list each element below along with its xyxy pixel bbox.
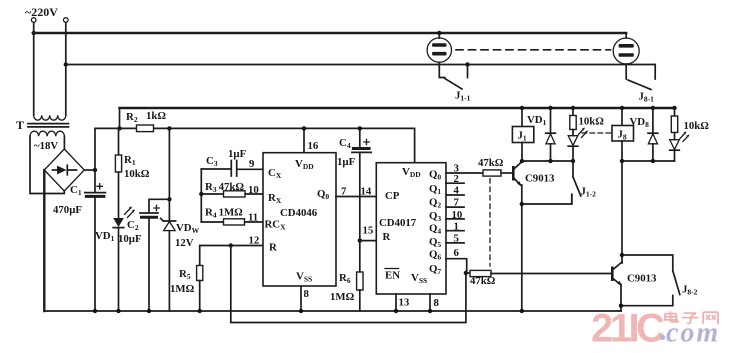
switch J8-2 lower xyxy=(621,296,673,306)
Q3 stub xyxy=(446,206,464,208)
transistor Q1 C9013 xyxy=(512,166,515,181)
svg-text:15: 15 xyxy=(363,225,374,237)
logo .com xyxy=(660,335,665,340)
collector net ch8 xyxy=(622,160,675,162)
transformer T core xyxy=(28,124,69,127)
lamp 8 xyxy=(625,33,627,38)
node switch branch ch8 xyxy=(620,253,624,257)
dashed lamps link xyxy=(456,49,611,51)
svg-text:47kΩ: 47kΩ xyxy=(470,275,496,287)
wire L terminal down xyxy=(33,23,35,116)
node R3 left xyxy=(199,192,203,196)
svg-text:10kΩ: 10kΩ xyxy=(579,116,605,128)
node C2 tap xyxy=(167,197,171,201)
node emitter tap xyxy=(520,202,524,206)
LED ch1 xyxy=(568,136,578,146)
wire pin15 xyxy=(360,240,377,242)
wire VDW branch xyxy=(168,128,170,221)
relay J1 coil xyxy=(520,106,524,110)
resistor R3 xyxy=(201,193,263,195)
svg-text:5: 5 xyxy=(454,233,459,245)
resistor R5 xyxy=(200,246,263,266)
LED VD1 light arrows xyxy=(125,208,135,218)
svg-text:2: 2 xyxy=(454,173,459,185)
wire secondary left to bridge bottom xyxy=(30,136,64,193)
ground rail dots xyxy=(93,309,97,313)
Q1 stub xyxy=(446,182,464,184)
transformer T primary winding xyxy=(34,115,66,120)
resistor R6 xyxy=(357,272,363,290)
svg-text:R: R xyxy=(269,242,277,254)
wire pin8 4046 xyxy=(300,286,302,311)
resistor R2 xyxy=(120,127,170,129)
node Q7 xyxy=(464,271,468,275)
node feedback tap xyxy=(229,243,233,247)
wire 220V lower rail xyxy=(66,64,655,66)
collector net ch1 xyxy=(522,160,573,162)
oscillator left bus xyxy=(200,169,202,222)
lamp1 bottom and switch J1-1 xyxy=(439,62,445,77)
wire pin8 4017 xyxy=(429,294,431,311)
svg-text:CD4017: CD4017 xyxy=(379,217,417,229)
lamp8 bottom and switch J8-1 xyxy=(625,64,627,79)
wire pin13 xyxy=(395,294,397,311)
switch J8-2 blade xyxy=(673,271,680,295)
logo dian character xyxy=(665,311,678,322)
wire branch to J8-2 xyxy=(622,255,673,271)
capacitor C2 xyxy=(149,199,169,212)
wire 220V top rail xyxy=(34,32,627,34)
svg-text:8: 8 xyxy=(434,297,440,309)
svg-text:7: 7 xyxy=(454,197,460,209)
node pin15 xyxy=(358,238,362,242)
switch J1-2 xyxy=(573,177,581,196)
svg-text:1: 1 xyxy=(454,221,459,233)
svg-text:4: 4 xyxy=(454,185,460,197)
svg-text:C9013: C9013 xyxy=(627,273,657,285)
resistor 47k base2 xyxy=(466,272,470,274)
svg-text:R347kΩ: R347kΩ xyxy=(205,181,244,194)
Q0 stub xyxy=(446,172,483,174)
svg-text:1µF: 1µF xyxy=(337,156,356,168)
dashed link vertical xyxy=(489,179,491,267)
logo wang character xyxy=(703,312,718,324)
diode VD8 flyback xyxy=(651,106,655,110)
svg-text:10kΩ: 10kΩ xyxy=(124,168,150,180)
svg-text:14: 14 xyxy=(361,186,372,198)
node R2 left xyxy=(117,126,121,130)
svg-text:~220V: ~220V xyxy=(25,5,58,19)
svg-text:10: 10 xyxy=(248,184,259,196)
svg-text:10kΩ: 10kΩ xyxy=(684,120,710,132)
dashed continuation ch xyxy=(582,132,611,134)
Q7 stub xyxy=(446,259,467,273)
resistor R1 xyxy=(118,128,120,155)
resistor 10k ch1 xyxy=(571,106,575,110)
logo zi character xyxy=(682,313,699,323)
wire pin16 xyxy=(303,128,305,152)
svg-text:10: 10 xyxy=(452,209,463,221)
svg-text:1µF: 1µF xyxy=(228,148,247,160)
svg-text:CP: CP xyxy=(385,190,400,202)
relay J8 coil xyxy=(620,106,624,110)
LED ch8 xyxy=(670,140,680,150)
transistor Q2 C9013 xyxy=(611,267,614,282)
capacitor C1 xyxy=(94,170,96,192)
wire plus node up to R2 node xyxy=(95,128,120,170)
diode VD1p flyback xyxy=(548,106,552,110)
svg-text:1MΩ: 1MΩ xyxy=(170,283,195,295)
Q6 stub xyxy=(446,242,464,244)
resistor 10k ch8 xyxy=(672,106,676,110)
LED VD1 xyxy=(113,218,124,227)
svg-text:com: com xyxy=(666,318,720,349)
resistor R4 xyxy=(201,221,263,223)
svg-text:C9013: C9013 xyxy=(525,173,555,185)
capacitor C3 xyxy=(201,168,263,170)
svg-text:CD4046: CD4046 xyxy=(280,207,318,219)
Q4 stub xyxy=(446,218,464,220)
Q5 stub xyxy=(446,230,464,232)
svg-text:T: T xyxy=(16,118,24,132)
bridge rectifier diode xyxy=(53,169,58,171)
bridge rectifier outline xyxy=(44,149,84,191)
wire feedback xyxy=(231,246,466,323)
IC U1 CD4046 box xyxy=(263,153,336,286)
lamp 1 xyxy=(437,31,441,35)
IC U2 CD4017 box xyxy=(376,163,446,294)
svg-text:8: 8 xyxy=(304,288,310,300)
svg-text:11: 11 xyxy=(248,212,258,224)
wire N terminal down xyxy=(65,23,67,116)
wire emitter tap to J1-2 xyxy=(522,194,572,204)
svg-text:47kΩ: 47kΩ xyxy=(478,157,504,169)
svg-text:13: 13 xyxy=(399,297,410,309)
resistor 47k base1 xyxy=(483,170,501,176)
svg-text:10µF: 10µF xyxy=(118,233,142,245)
svg-text:7: 7 xyxy=(341,186,347,198)
wire up to relay rail xyxy=(119,108,121,128)
collector column ch8 xyxy=(621,161,623,263)
zener VDW xyxy=(161,218,176,221)
node L junction xyxy=(32,31,36,35)
svg-text:21IC: 21IC xyxy=(591,307,664,351)
svg-text:12V: 12V xyxy=(175,237,194,249)
transformer T secondary winding xyxy=(30,131,64,136)
svg-text:1kΩ: 1kΩ xyxy=(146,110,166,122)
svg-text:16: 16 xyxy=(308,140,319,152)
relay supply rail xyxy=(120,107,675,109)
svg-text:R41MΩ: R41MΩ xyxy=(205,207,243,220)
wire bridge minus down xyxy=(43,170,45,311)
node R2 right xyxy=(167,126,171,130)
svg-text:9: 9 xyxy=(249,158,255,170)
svg-text:470µF: 470µF xyxy=(53,204,82,216)
svg-text:R: R xyxy=(383,231,391,243)
svg-text:~18V: ~18V xyxy=(34,140,58,152)
wire pin7 to pin14 xyxy=(336,196,376,198)
terminal N xyxy=(64,18,69,23)
terminal L xyxy=(31,18,36,23)
wire secondary right to bridge top xyxy=(63,136,65,149)
Q2 stub xyxy=(446,194,464,196)
node emitter ch8 xyxy=(619,304,623,308)
ground rail xyxy=(44,310,621,312)
node plus xyxy=(93,168,97,172)
svg-text:6: 6 xyxy=(454,247,460,259)
capacitor C4 xyxy=(359,128,361,147)
svg-text:12: 12 xyxy=(249,235,260,247)
12V rail xyxy=(169,128,414,162)
svg-text:1MΩ: 1MΩ xyxy=(330,291,355,303)
svg-text:EN: EN xyxy=(385,270,400,282)
wire bridge plus to node xyxy=(84,169,95,171)
node N junction xyxy=(64,62,68,66)
